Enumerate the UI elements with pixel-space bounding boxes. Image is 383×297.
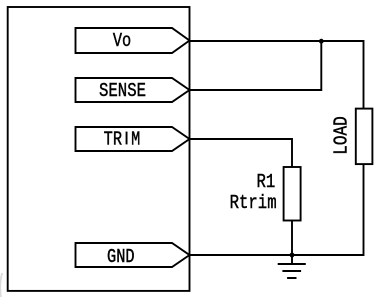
svg-text:SENSE: SENSE xyxy=(99,81,146,103)
svg-text:GND: GND xyxy=(107,246,135,268)
svg-text:TR M: TR M xyxy=(104,129,141,151)
svg-text:Rtrim: Rtrim xyxy=(230,193,277,215)
svg-text:LOAD: LOAD xyxy=(331,116,353,155)
svg-text:Vo: Vo xyxy=(113,30,131,52)
svg-text:R1: R1 xyxy=(256,171,275,193)
